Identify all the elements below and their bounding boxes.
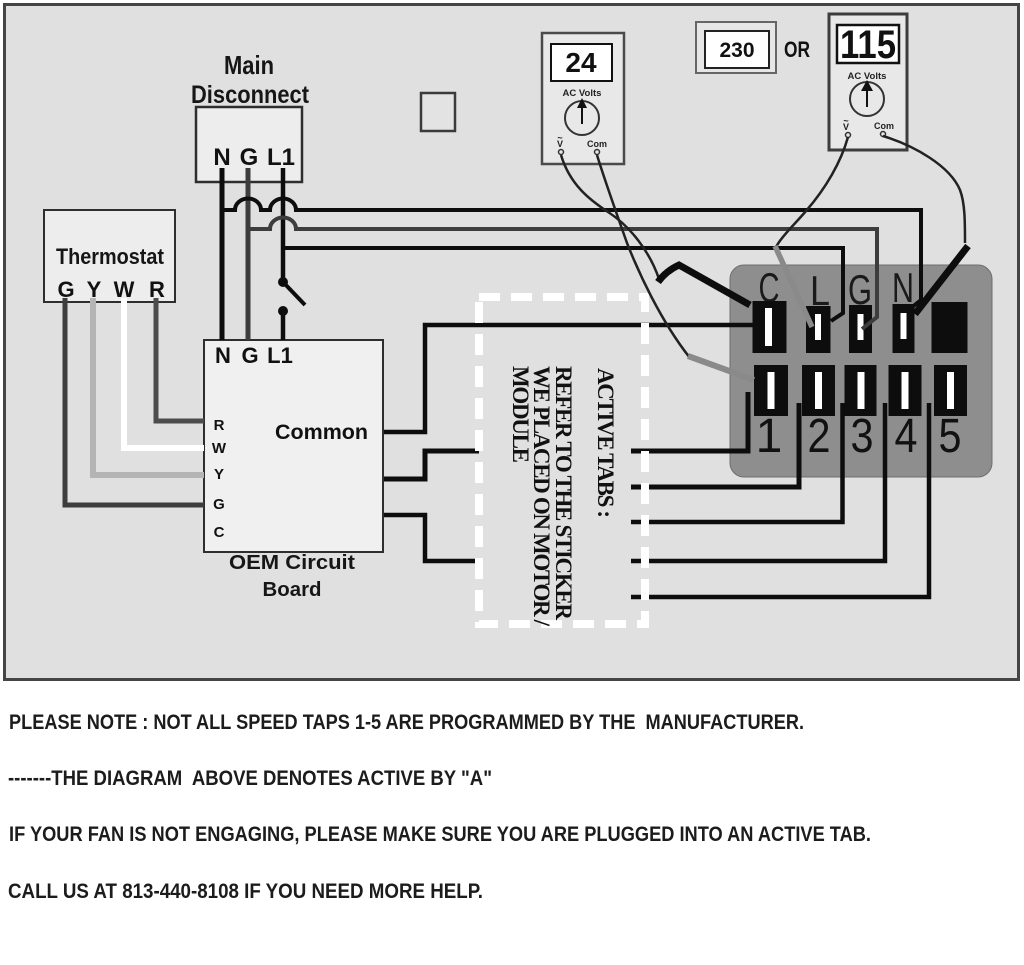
wire OEM to tab 4 xyxy=(382,403,885,561)
svg-text:L1: L1 xyxy=(267,144,295,171)
svg-text:C: C xyxy=(214,524,225,541)
wire to tab 3 xyxy=(630,403,843,522)
probe wire M1 Com to tab 1 xyxy=(597,155,690,358)
meter M2 display xyxy=(837,25,899,63)
wire OEM to tab 1 xyxy=(382,392,748,479)
svg-text:1: 1 xyxy=(756,410,783,463)
OEM circuit board box xyxy=(204,340,383,552)
svg-text:N: N xyxy=(213,144,230,171)
Main Disconnect box xyxy=(196,107,302,182)
tab L xyxy=(806,306,831,353)
probe wire M2 Com to tab N xyxy=(883,136,965,243)
svg-text:Board: Board xyxy=(263,579,322,601)
active-tabs dashed box border xyxy=(479,297,645,624)
svg-text:ACTIVE TABS :: ACTIVE TABS : xyxy=(593,368,618,518)
bus N to tab N xyxy=(222,199,921,309)
meter M1 display xyxy=(551,44,612,81)
bus L1 to tab L xyxy=(283,248,843,321)
svg-text:Com: Com xyxy=(874,121,894,131)
svg-text:3: 3 xyxy=(851,410,874,463)
svg-text:W: W xyxy=(212,440,227,457)
tab C xyxy=(753,301,787,353)
probe wire M1 V to tab C xyxy=(561,155,659,279)
meter M2 115V body xyxy=(829,14,907,150)
svg-text:~: ~ xyxy=(557,133,562,143)
svg-text:Common: Common xyxy=(275,421,368,444)
tab N xyxy=(893,304,915,353)
terminal block TB1 xyxy=(730,265,992,477)
Thermostat box xyxy=(44,210,175,302)
switch SW1 xyxy=(278,277,288,287)
tab blank xyxy=(932,302,968,353)
svg-text:AC Volts: AC Volts xyxy=(563,88,602,99)
230 box xyxy=(696,22,776,73)
svg-text:N: N xyxy=(215,343,231,368)
tab 2 xyxy=(802,365,835,416)
svg-text:115: 115 xyxy=(840,23,896,67)
svg-text:2: 2 xyxy=(808,410,831,463)
svg-text:Com: Com xyxy=(587,139,607,149)
svg-text:4: 4 xyxy=(895,410,918,463)
tab 5 xyxy=(934,365,967,416)
tab 4 xyxy=(889,365,922,416)
svg-text:Thermostat: Thermostat xyxy=(56,244,165,269)
meter M1 24V body xyxy=(542,33,624,164)
svg-text:G: G xyxy=(240,144,259,171)
wire N from disconnect xyxy=(220,168,225,340)
svg-text:Y: Y xyxy=(214,466,224,483)
thermostat wire W xyxy=(124,298,204,448)
bus G to tab G xyxy=(248,218,877,330)
common bus wire to tab C xyxy=(370,325,753,432)
svg-text:OEM Circuit: OEM Circuit xyxy=(229,552,355,574)
svg-text:CALL US AT 813-440-8108 IF YOU: CALL US AT 813-440-8108 IF YOU NEED MORE… xyxy=(8,880,483,903)
thermostat wire Y xyxy=(93,298,204,475)
svg-text:G: G xyxy=(213,496,225,513)
wire to tab 5 xyxy=(630,403,929,597)
thermostat wire R xyxy=(156,298,204,421)
svg-text:5: 5 xyxy=(939,410,962,463)
tab 3 xyxy=(845,365,877,416)
svg-text:MODULE: MODULE xyxy=(508,366,533,463)
svg-text:-------THE DIAGRAM ABOVE DENO: -------THE DIAGRAM ABOVE DENOTES ACTIVE … xyxy=(8,767,492,790)
wire L1 lower xyxy=(281,311,286,340)
svg-text:IF YOUR FAN IS NOT ENGAGING, P: IF YOUR FAN IS NOT ENGAGING, PLEASE MAKE… xyxy=(9,823,871,846)
svg-text:Main: Main xyxy=(224,50,274,80)
tab 1 xyxy=(754,365,788,416)
wire to tab 2 xyxy=(630,403,799,487)
svg-text:PLEASE NOTE : NOT ALL SPEED TA: PLEASE NOTE : NOT ALL SPEED TAPS 1-5 ARE… xyxy=(9,711,804,734)
wire L1 upper xyxy=(281,168,286,278)
meter M2 knob xyxy=(850,82,884,116)
svg-text:L1: L1 xyxy=(267,343,293,368)
tab G xyxy=(849,305,872,353)
wire G from disconnect xyxy=(246,168,251,340)
diagram frame xyxy=(5,5,1019,680)
svg-text:OR: OR xyxy=(784,37,810,62)
svg-text:24: 24 xyxy=(565,47,597,78)
svg-text:230: 230 xyxy=(719,39,754,62)
svg-text:R: R xyxy=(214,417,225,434)
probe wire M2 V to tab L xyxy=(775,137,848,249)
svg-text:G: G xyxy=(241,343,258,368)
active-tabs dashed box fill xyxy=(479,297,631,624)
svg-text:N: N xyxy=(892,264,914,311)
small junction square xyxy=(421,93,455,131)
meter M1 knob xyxy=(565,101,599,135)
thermostat wire G xyxy=(65,298,204,505)
svg-text:Disconnect: Disconnect xyxy=(191,81,310,109)
svg-text:~: ~ xyxy=(843,116,848,126)
